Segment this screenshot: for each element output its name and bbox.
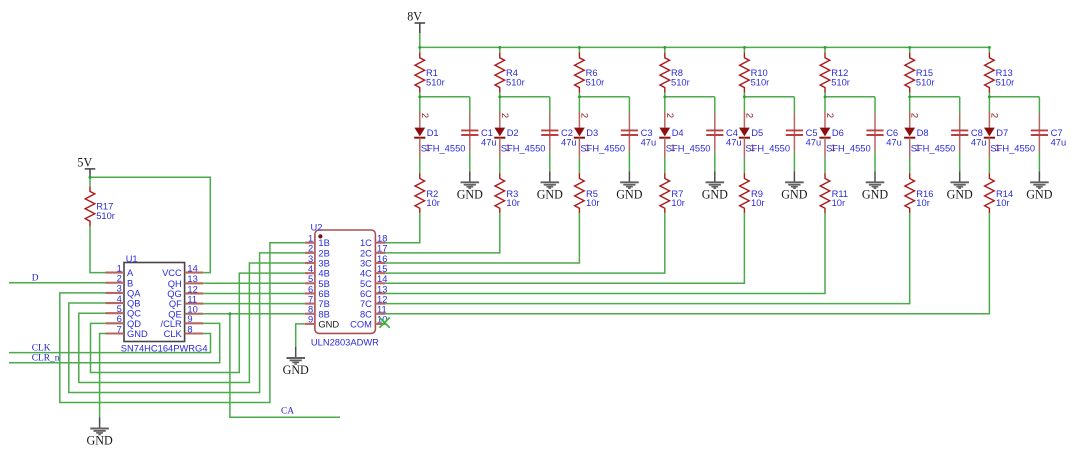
resistor R16 (10r) (905, 173, 934, 213)
wire C6 to ground (874, 152, 876, 172)
svg-text:5: 5 (117, 304, 122, 314)
wire D1 cathode to R2 (419, 158, 421, 174)
wire U2 GND pin 9 to ground (296, 324, 305, 347)
svg-text:510r: 510r (96, 211, 115, 221)
wire R2 to U2 output (385, 213, 419, 243)
wire U1 GND pin 7 to ground (100, 334, 106, 418)
svg-text:14: 14 (377, 274, 387, 284)
svg-text:SN74HC164PWRG4: SN74HC164PWRG4 (121, 344, 208, 354)
wire QF to U2 7B (203, 303, 305, 305)
svg-text:3B: 3B (318, 259, 329, 269)
svg-text:GND: GND (781, 188, 807, 202)
svg-text:2: 2 (419, 113, 430, 118)
power symbol 8V (407, 9, 425, 33)
resistor R4 (510r) (495, 53, 525, 93)
svg-text:/CLR: /CLR (161, 319, 183, 329)
svg-text:QE: QE (168, 309, 182, 319)
svg-text:SFH_4550: SFH_4550 (666, 143, 711, 153)
svg-text:VCC: VCC (162, 268, 182, 278)
wire R9 to U2 output (385, 213, 744, 284)
svg-text:2: 2 (824, 113, 835, 118)
diode D3 (SFH_4550 IR LED) (574, 112, 625, 158)
svg-text:SFH_4550: SFH_4550 (745, 143, 790, 153)
svg-text:8: 8 (187, 324, 192, 334)
svg-text:GND: GND (283, 363, 309, 377)
svg-text:A: A (127, 268, 134, 278)
svg-text:C4: C4 (726, 128, 738, 138)
U1 pin names (127, 268, 183, 339)
D5 pin 2 number (743, 113, 754, 118)
diode D4 (SFH_4550 IR LED) (659, 112, 710, 158)
svg-text:510r: 510r (996, 77, 1015, 87)
wire C3 to ground (628, 152, 630, 172)
wire 8V stem (419, 33, 421, 47)
svg-text:510r: 510r (916, 77, 935, 87)
svg-text:2: 2 (664, 113, 675, 118)
wire node R4 bottom junction (498, 93, 549, 114)
svg-text:6: 6 (308, 284, 313, 294)
svg-text:C2: C2 (561, 128, 573, 138)
svg-text:SFH_4550: SFH_4550 (826, 143, 871, 153)
capacitor C1 (47u) (461, 114, 496, 152)
svg-text:10r: 10r (506, 198, 520, 208)
svg-text:12: 12 (377, 294, 387, 304)
svg-text:4: 4 (308, 264, 313, 274)
svg-text:D4: D4 (672, 128, 684, 138)
wire D6 cathode to R11 (824, 158, 826, 174)
diode D7 (SFH_4550 IR LED) (984, 112, 1035, 158)
D8 pin 2 number (909, 113, 920, 118)
wire QB to U2 2B (69, 253, 305, 393)
junction 8V rail / R12 (824, 46, 827, 49)
svg-text:1C: 1C (360, 238, 372, 248)
D2 pin 2 number (499, 113, 510, 118)
svg-text:47u: 47u (971, 137, 987, 147)
svg-text:6: 6 (117, 314, 122, 324)
wire R14 to U2 output (385, 213, 989, 314)
capacitor C6 (47u) (866, 114, 901, 152)
ground GND (781, 171, 807, 201)
diode D5 (SFH_4550 IR LED) (739, 112, 790, 158)
no-connect X on U2 COM pin 10 (379, 317, 389, 327)
ground GND (862, 171, 888, 201)
svg-text:GND: GND (537, 188, 563, 202)
svg-text:4B: 4B (318, 269, 329, 279)
svg-text:3: 3 (117, 284, 122, 294)
capacitor C2 (47u) (541, 114, 576, 152)
wire node R15 bottom junction (908, 93, 959, 114)
resistor R17 (510r) (85, 186, 115, 226)
U2 pin names (318, 238, 372, 329)
svg-text:47u: 47u (561, 137, 577, 147)
svg-text:QD: QD (127, 319, 141, 329)
svg-text:10r: 10r (671, 198, 685, 208)
svg-text:QA: QA (127, 288, 141, 298)
wire node R8 bottom junction (663, 93, 714, 114)
svg-text:47u: 47u (481, 137, 497, 147)
resistor R1 (510r) (415, 53, 445, 93)
resistor R2 (10r) (415, 173, 440, 213)
D7 pin 2 number (988, 113, 999, 118)
svg-text:3C: 3C (360, 259, 372, 269)
D1 pin 2 number (419, 113, 430, 118)
junction 8V rail / R10 (743, 46, 746, 49)
resistor R14 (10r) (985, 173, 1014, 213)
svg-text:SFH_4550: SFH_4550 (501, 143, 546, 153)
resistor R12 (510r) (820, 53, 850, 93)
svg-text:QF: QF (169, 299, 182, 309)
resistor R9 (10r) (740, 173, 765, 213)
ground GND (457, 171, 483, 201)
net label CA (281, 407, 294, 417)
ground GND (616, 171, 642, 201)
svg-text:510r: 510r (751, 77, 770, 87)
svg-text:4C: 4C (360, 269, 372, 279)
svg-text:5B: 5B (318, 279, 329, 289)
wire 5V to R17 (89, 176, 92, 187)
wire net CLR_n to U1 pin 9 (9, 323, 220, 362)
wire net CA junction (228, 312, 340, 417)
svg-text:2: 2 (909, 113, 920, 118)
svg-text:C8: C8 (971, 128, 983, 138)
svg-text:SFH_4550: SFH_4550 (580, 143, 625, 153)
svg-text:GND: GND (616, 188, 642, 202)
diode D6 (SFH_4550 IR LED) (819, 112, 870, 158)
svg-text:C3: C3 (641, 128, 653, 138)
U1 pin stubs (106, 273, 204, 334)
svg-text:U2: U2 (311, 223, 323, 233)
svg-text:7: 7 (308, 294, 313, 304)
wire R17 to U1 pin 1 (90, 226, 106, 272)
svg-text:10r: 10r (996, 198, 1010, 208)
svg-text:8V: 8V (407, 9, 422, 23)
svg-text:13: 13 (187, 274, 197, 284)
svg-text:1: 1 (308, 234, 313, 244)
svg-text:QG: QG (167, 289, 182, 299)
svg-text:10r: 10r (426, 198, 440, 208)
resistor R6 (510r) (575, 53, 605, 93)
junction 8V rail / R13 (988, 46, 991, 49)
svg-text:GND: GND (457, 188, 483, 202)
svg-text:10r: 10r (751, 198, 765, 208)
svg-text:510r: 510r (426, 77, 445, 87)
wire 8V rail to R10 (743, 47, 745, 52)
wire node R10 bottom junction (743, 93, 794, 114)
svg-text:D1: D1 (427, 128, 439, 138)
svg-text:10r: 10r (586, 198, 600, 208)
diode D1 (SFH_4550 IR LED) (414, 112, 465, 158)
resistor R15 (510r) (905, 53, 935, 93)
svg-text:1: 1 (117, 263, 122, 273)
wire net D to U1 pin 2 (9, 282, 106, 284)
wire 8V rail to R8 (664, 47, 666, 52)
svg-text:GND: GND (86, 434, 112, 448)
power symbol 5V (77, 155, 95, 179)
svg-text:2: 2 (988, 113, 999, 118)
svg-text:D6: D6 (832, 128, 844, 138)
junction 8V rail / R6 (578, 46, 581, 49)
ground GND (283, 347, 309, 377)
svg-text:510r: 510r (671, 77, 690, 87)
svg-text:CA: CA (281, 407, 294, 417)
svg-text:C1: C1 (481, 128, 493, 138)
U1 pin numbers (117, 263, 198, 334)
U2 pin stubs (305, 243, 386, 324)
svg-text:11: 11 (377, 305, 387, 315)
D3 pin 2 number (578, 113, 589, 118)
svg-text:SFH_4550: SFH_4550 (911, 143, 956, 153)
wire R7 to U2 output (385, 213, 664, 274)
capacitor C4 (47u) (706, 114, 741, 152)
wire QH to U2 5B (203, 282, 305, 284)
ground GND (1026, 171, 1052, 201)
svg-text:5V: 5V (77, 155, 92, 169)
net label CLR_n (32, 354, 60, 364)
svg-text:QB: QB (127, 299, 141, 309)
junction 8V rail / R4 (498, 46, 501, 49)
wire C2 to ground (549, 152, 551, 172)
svg-text:D5: D5 (751, 128, 763, 138)
svg-text:QC: QC (127, 309, 141, 319)
junction 8V rail / R1 (418, 46, 421, 49)
svg-text:2: 2 (578, 113, 589, 118)
wire 8V rail (420, 46, 990, 48)
wire D5 cathode to R9 (743, 158, 745, 174)
svg-text:GND: GND (947, 188, 973, 202)
wire 8V rail to R4 (499, 47, 501, 52)
capacitor C3 (47u) (621, 114, 656, 152)
wire QC to U2 3B (79, 263, 305, 383)
wire QE to U2 8B (203, 313, 305, 315)
svg-text:7C: 7C (360, 299, 372, 309)
svg-text:12: 12 (187, 284, 197, 294)
wire node R13 bottom junction (988, 93, 1039, 114)
svg-text:2: 2 (117, 274, 122, 284)
ground GND (702, 171, 728, 201)
svg-text:2: 2 (499, 113, 510, 118)
wire 8V rail to R1 (419, 47, 421, 52)
svg-text:7B: 7B (318, 299, 329, 309)
svg-text:B: B (127, 278, 133, 288)
ground GND (537, 171, 563, 201)
wire node R6 bottom junction (578, 93, 629, 114)
svg-text:9: 9 (308, 315, 313, 325)
svg-text:CLK: CLK (164, 329, 183, 339)
U2 pin numbers (308, 234, 387, 325)
svg-text:GND: GND (702, 188, 728, 202)
svg-text:8B: 8B (318, 309, 329, 319)
svg-text:5C: 5C (360, 279, 372, 289)
svg-text:GND: GND (127, 329, 148, 339)
diode D2 (SFH_4550 IR LED) (494, 112, 545, 158)
svg-text:D8: D8 (917, 128, 929, 138)
svg-text:GND: GND (862, 188, 888, 202)
svg-text:SFH_4550: SFH_4550 (421, 143, 466, 153)
svg-text:GND: GND (1026, 188, 1052, 202)
svg-text:47u: 47u (806, 137, 822, 147)
svg-text:QH: QH (168, 279, 182, 289)
svg-text:6B: 6B (318, 289, 329, 299)
wire node R12 bottom junction (824, 93, 875, 114)
op-amp U1 SN74HC164PWRG4 shift register (121, 254, 208, 353)
svg-text:47u: 47u (726, 137, 742, 147)
wire 8V rail to R13 (988, 47, 990, 52)
wire C8 to ground (959, 152, 961, 172)
wire R5 to U2 output (385, 213, 579, 263)
U2 ULN2803ADWR darlington array (311, 223, 380, 348)
svg-text:U1: U1 (126, 254, 138, 264)
svg-text:D7: D7 (996, 128, 1008, 138)
svg-text:47u: 47u (886, 137, 902, 147)
svg-text:47u: 47u (1051, 137, 1067, 147)
svg-text:47u: 47u (641, 137, 657, 147)
wire C5 to ground (793, 152, 795, 172)
svg-text:16: 16 (377, 254, 387, 264)
capacitor C7 (47u) (1031, 114, 1066, 152)
capacitor C8 (47u) (951, 114, 986, 152)
D4 pin 2 number (664, 113, 675, 118)
resistor R7 (10r) (660, 173, 685, 213)
resistor R3 (10r) (495, 173, 520, 213)
svg-text:14: 14 (187, 263, 197, 273)
resistor R13 (510r) (985, 53, 1015, 93)
svg-text:8: 8 (308, 305, 313, 315)
resistor R10 (510r) (740, 53, 770, 93)
junction 8V rail / R8 (663, 46, 666, 49)
svg-text:10r: 10r (832, 198, 846, 208)
svg-text:10r: 10r (916, 198, 930, 208)
svg-text:11: 11 (187, 294, 197, 304)
svg-text:17: 17 (377, 244, 387, 254)
svg-text:10: 10 (187, 305, 197, 315)
svg-text:510r: 510r (586, 77, 605, 87)
svg-text:6C: 6C (360, 289, 372, 299)
svg-text:2: 2 (743, 113, 754, 118)
svg-text:8C: 8C (360, 309, 372, 319)
svg-text:C6: C6 (886, 128, 898, 138)
svg-text:7: 7 (117, 324, 122, 334)
wire QG to U2 6B (203, 292, 305, 294)
wire R3 to U2 output (385, 213, 499, 253)
svg-text:4: 4 (117, 294, 122, 304)
diode D8 (SFH_4550 IR LED) (904, 112, 955, 158)
svg-text:15: 15 (377, 264, 387, 274)
svg-text:C5: C5 (806, 128, 818, 138)
svg-text:D2: D2 (507, 128, 519, 138)
svg-text:C7: C7 (1051, 128, 1063, 138)
net label CLK (32, 343, 51, 353)
wire 8V rail to R6 (578, 47, 580, 52)
svg-text:13: 13 (377, 284, 387, 294)
wire D2 cathode to R3 (499, 158, 501, 174)
capacitor C5 (47u) (786, 114, 821, 152)
svg-text:COM: COM (350, 319, 372, 329)
resistor R5 (10r) (575, 173, 600, 213)
wire 8V rail to R12 (824, 47, 826, 52)
ground GND (86, 418, 112, 448)
wire net CLK to U1 pin 8 (9, 334, 211, 353)
svg-text:2B: 2B (318, 248, 329, 258)
ground GND (947, 171, 973, 201)
wire C4 to ground (714, 152, 716, 172)
wire D4 cathode to R7 (664, 158, 666, 174)
wire QD to U2 4B (91, 273, 305, 372)
svg-text:18: 18 (377, 234, 387, 244)
D6 pin 2 number (824, 113, 835, 118)
svg-text:ULN2803ADWR: ULN2803ADWR (311, 337, 379, 347)
resistor R11 (10r) (820, 173, 848, 213)
wire D3 cathode to R5 (578, 158, 580, 174)
svg-text:2C: 2C (360, 248, 372, 258)
wire 5V to VCC (90, 176, 210, 273)
resistor R8 (510r) (660, 53, 690, 93)
svg-text:GND: GND (318, 319, 339, 329)
svg-text:510r: 510r (831, 77, 850, 87)
svg-text:SFH_4550: SFH_4550 (990, 143, 1035, 153)
net label D (32, 274, 39, 284)
svg-text:1B: 1B (318, 238, 329, 248)
wire 8V rail to R15 (909, 47, 911, 52)
wire C1 to ground (469, 152, 471, 172)
wire C7 to ground (1038, 152, 1040, 172)
wire R16 to U2 output (385, 213, 909, 304)
svg-text:3: 3 (308, 254, 313, 264)
svg-text:510r: 510r (506, 77, 525, 87)
svg-text:D3: D3 (586, 128, 598, 138)
svg-text:9: 9 (187, 314, 192, 324)
wire QA to U2 1B (60, 243, 305, 403)
wire R11 to U2 output (385, 213, 825, 294)
wire node R1 bottom junction (418, 93, 469, 114)
wire D7 cathode to R14 (988, 158, 990, 174)
svg-text:2: 2 (308, 244, 313, 254)
svg-text:5: 5 (308, 274, 313, 284)
wire D8 cathode to R16 (909, 158, 911, 174)
junction 8V rail / R15 (908, 46, 911, 49)
